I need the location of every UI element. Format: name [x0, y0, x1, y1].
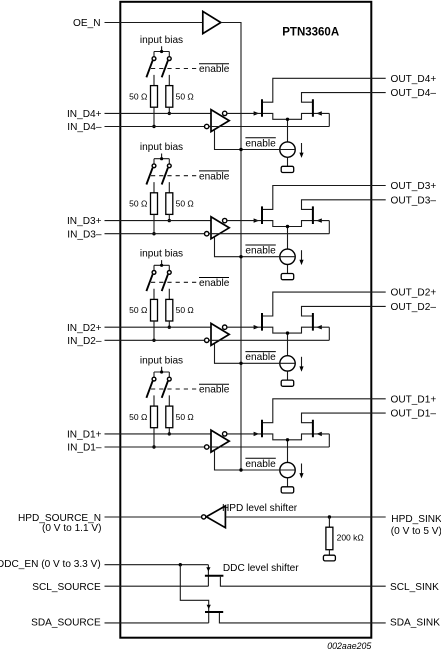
svg-text:HPD_SINK: HPD_SINK: [391, 514, 441, 525]
svg-text:SCL_SOURCE: SCL_SOURCE: [32, 582, 101, 593]
svg-text:IN_D4+: IN_D4+: [67, 109, 102, 120]
svg-text:SDA_SINK: SDA_SINK: [390, 618, 440, 629]
svg-text:OUT_D1+: OUT_D1+: [391, 394, 437, 405]
svg-text:SDA_SOURCE: SDA_SOURCE: [31, 618, 101, 629]
svg-text:OUT_D2+: OUT_D2+: [391, 288, 437, 299]
svg-text:OUT_D4–: OUT_D4–: [391, 88, 437, 99]
svg-text:DDC_EN (0 V to 3.3 V): DDC_EN (0 V to 3.3 V): [0, 559, 101, 570]
svg-text:(0 V to 5 V): (0 V to 5 V): [391, 526, 441, 537]
svg-text:IN_D2–: IN_D2–: [67, 336, 102, 347]
svg-text:HPD level shifter: HPD level shifter: [222, 503, 298, 514]
svg-text:OUT_D4+: OUT_D4+: [391, 74, 437, 85]
svg-text:PTN3360A: PTN3360A: [282, 27, 339, 39]
svg-text:OUT_D3–: OUT_D3–: [391, 195, 437, 206]
svg-text:(0 V to 1.1 V): (0 V to 1.1 V): [42, 523, 101, 534]
svg-text:002aae205: 002aae205: [327, 641, 371, 651]
svg-text:IN_D1+: IN_D1+: [67, 430, 102, 441]
svg-text:OE_N: OE_N: [73, 18, 101, 29]
svg-text:IN_D3–: IN_D3–: [67, 229, 102, 240]
svg-text:IN_D3+: IN_D3+: [67, 216, 102, 227]
svg-text:IN_D2+: IN_D2+: [67, 323, 102, 334]
svg-text:OUT_D2–: OUT_D2–: [391, 302, 437, 313]
svg-text:IN_D1–: IN_D1–: [67, 443, 102, 454]
svg-text:IN_D4–: IN_D4–: [67, 122, 102, 133]
svg-text:SCL_SINK: SCL_SINK: [390, 582, 439, 593]
svg-text:DDC level shifter: DDC level shifter: [223, 563, 299, 574]
svg-text:200 kΩ: 200 kΩ: [337, 532, 364, 542]
svg-text:OUT_D3+: OUT_D3+: [391, 181, 437, 192]
svg-text:OUT_D1–: OUT_D1–: [391, 409, 437, 420]
